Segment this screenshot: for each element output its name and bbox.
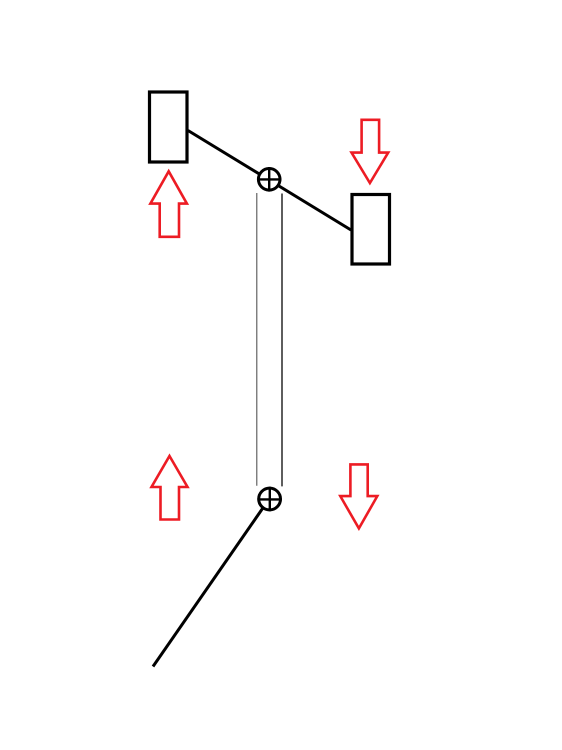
node: bottom pivot circle with cross (257, 487, 281, 512)
arrow: red up arrow (top-left) (150, 171, 187, 237)
arrow: red down arrow (top-right) (352, 120, 389, 183)
wire: lower crank line from bottom pivot down-left (153, 504, 266, 667)
wire: thin connecting rod left edge (256, 193, 258, 486)
block: top-right slider rectangle (352, 195, 390, 265)
wire: rocker link line from left block through top pivot to right block (188, 131, 351, 231)
node: top pivot circle with cross (257, 167, 281, 192)
arrow: red down arrow (bottom-right) (340, 464, 377, 528)
block: top-left slider rectangle (150, 92, 188, 162)
arrow: red up arrow (bottom-left) (152, 456, 188, 520)
wire: thin connecting rod right edge (281, 194, 283, 487)
